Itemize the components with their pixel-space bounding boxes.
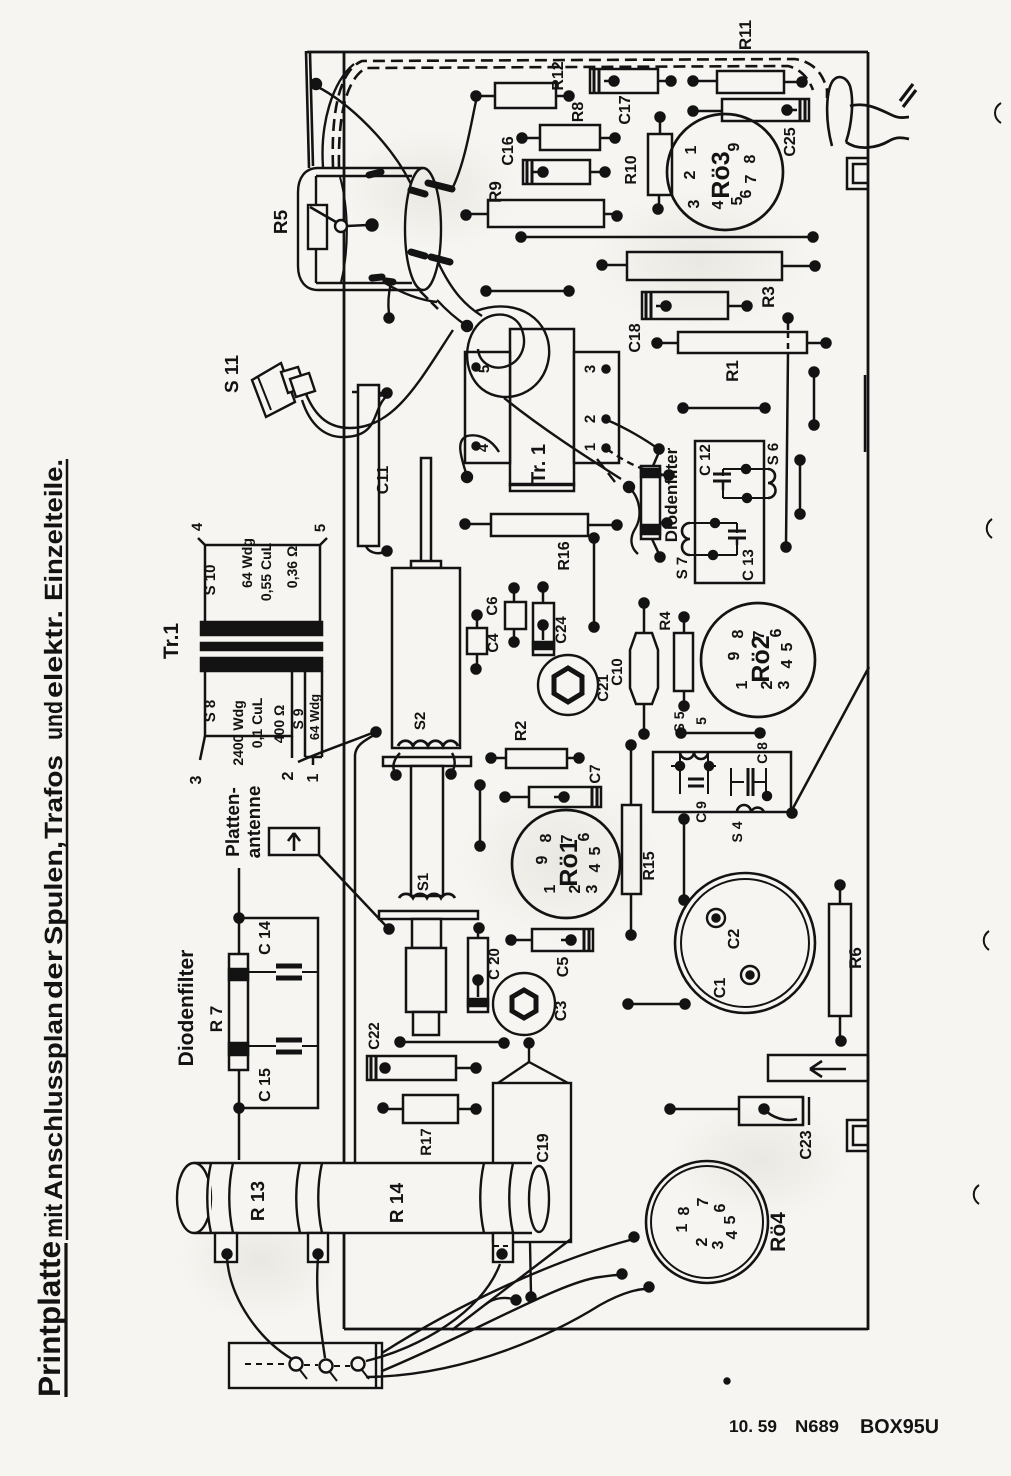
svg-text:S 8: S 8 [202,700,219,723]
svg-text:9: 9 [534,855,551,864]
capacitor C16 [523,160,590,184]
svg-text:2400 Wdg: 2400 Wdg [230,700,246,765]
wire diagonal curl [629,487,640,554]
capacitor C1 C2 electrolytic can [675,873,815,1013]
R5 pot body [308,205,327,249]
coil S6 turns [768,469,776,498]
svg-text:C2: C2 [726,929,743,950]
tube socket Ro4 [646,1161,768,1283]
svg-text:2: 2 [582,415,599,423]
svg-text:3: 3 [776,680,793,689]
svg-text:3: 3 [710,1240,727,1249]
svg-text:S 9: S 9 [290,708,306,729]
coil S4 turns [737,805,764,812]
tube Ro4 pin labels [674,1197,741,1249]
clamp lug 3 [493,1233,513,1262]
svg-text:2: 2 [280,771,297,780]
resistor R17 [403,1095,458,1123]
resistor R12 [495,83,556,108]
svg-text:R11: R11 [736,20,755,50]
capacitor C12 [723,469,768,498]
svg-text:3: 3 [686,199,703,208]
svg-text:0,36 Ω: 0,36 Ω [284,546,300,588]
capacitor C24 [533,603,554,655]
capacitor C23 [739,1097,803,1125]
Tr1 winding bar S8 [201,658,322,671]
svg-text:64 Wdg: 64 Wdg [239,538,255,588]
svg-text:S1: S1 [415,873,432,891]
wire flap curve [323,64,354,167]
wire dashes below can [420,291,438,309]
wire horizontal with dots [400,1041,504,1044]
svg-text:C19: C19 [535,1133,552,1162]
connector pin circles [290,1358,303,1371]
capacitor C15 [248,1045,318,1047]
wire terminal2 to S2 [298,733,372,762]
wire pin2 to diodenfilter [607,420,657,448]
svg-text:C11: C11 [375,466,392,495]
node S6 wire vertical [787,321,790,330]
svg-text:der: der [40,950,68,999]
terminal 2 tick [291,736,294,758]
capacitor C20 [468,938,488,1012]
svg-text:4: 4 [710,200,727,209]
svg-text:R2: R2 [513,721,530,742]
capacitor C13 [690,523,737,555]
svg-text:C 14: C 14 [257,921,274,955]
resistor R10 [648,134,672,195]
wire loop to diagonal [504,398,621,479]
coil S2 lead hooks [393,753,454,772]
wire lug2 to pin2 [317,1258,325,1358]
svg-text:Tr.1: Tr.1 [160,623,183,660]
svg-text:N689: N689 [795,1417,839,1436]
svg-text:C23: C23 [798,1130,815,1159]
wire hook at pin4 [460,435,499,476]
svg-text:6: 6 [738,189,755,198]
svg-text:10. 59: 10. 59 [729,1417,777,1436]
wire C19 bottom [452,1239,571,1330]
wire vertical below box [683,819,686,900]
wire down along board edge [355,735,374,1172]
svg-text:C10: C10 [609,658,626,686]
wire vertical at R16 right [593,540,596,624]
wire short vertical [799,460,802,514]
wire lug1 to pin1 [227,1258,292,1359]
wire lug to mid dot [385,283,437,302]
coil S2 body [392,568,460,748]
svg-text:R 14: R 14 [387,1183,408,1224]
svg-text:9: 9 [726,142,743,151]
tube Ro2 pin labels [726,628,796,689]
Tr1 pin plate right (pins 1,2,3) [574,352,619,463]
terminal 4 tick [198,538,205,545]
wire arrow box to S1 plate [319,855,386,926]
svg-text:und: und [40,701,68,740]
R5 inner frame [316,176,412,283]
coil S1 neck [412,919,441,948]
resistor R2 [506,749,567,768]
Tr1 winding bar S10 [201,622,322,635]
capacitor C19 body [493,1083,571,1242]
potentiometer R5 can [298,168,423,290]
svg-text:C16: C16 [500,136,517,165]
wire from flap to can lug [316,86,411,184]
wire lug down to dot [388,283,391,314]
tube Ro3 pin labels [682,142,760,209]
resistor R6 [829,904,851,1016]
svg-text:S 6: S 6 [765,443,782,466]
svg-text:R 7: R 7 [207,1006,226,1032]
svg-text:4: 4 [475,443,492,452]
coil S1 turns [399,894,455,898]
svg-text:S 7: S 7 [674,557,691,580]
svg-text:5: 5 [693,717,709,725]
paper mottling [340,130,520,250]
svg-text:S 11: S 11 [222,355,243,393]
svg-text:4: 4 [189,522,206,531]
wire lug to top dot [453,101,476,187]
resistor R7 [229,954,248,1070]
svg-text:8: 8 [730,629,747,638]
svg-text:6: 6 [712,1203,729,1212]
resistor R15 [622,805,641,894]
clamp band 1 [207,1163,233,1233]
svg-text:S 4: S 4 [729,821,745,842]
wire dashed inner [339,66,813,167]
capacitor C5 [532,929,593,951]
svg-text:R17: R17 [418,1128,435,1156]
svg-text:elektr.: elektr. [40,610,68,698]
svg-text:BOX95U: BOX95U [860,1416,939,1438]
svg-text:5: 5 [779,642,796,651]
svg-text:Rö3: Rö3 [707,151,735,198]
wire short vertical left of Ro1 [479,785,482,846]
capacitor C9 [680,752,708,794]
svg-text:8: 8 [742,154,759,163]
clamp band 3 [480,1163,513,1233]
capacitor C4 [467,628,487,654]
coil S7 turns [682,523,690,555]
svg-text:C7: C7 [587,764,604,783]
coil S1 block [406,948,446,1012]
svg-text:2: 2 [682,170,699,179]
svg-text:C3: C3 [553,1001,570,1022]
wire exits right [850,105,909,118]
wire exits right lower [846,138,909,148]
svg-text:400 Ω: 400 Ω [271,705,287,743]
svg-text:64 Wdg: 64 Wdg [307,694,322,740]
capacitor C8 [731,768,766,796]
svg-text:C 9: C 9 [693,801,709,823]
wire box to right 2 [382,1275,618,1371]
clamp lug 1 [215,1233,237,1262]
speaker S11 [252,363,295,417]
svg-text:R9: R9 [486,181,505,203]
wire box to right 1 [382,1240,630,1353]
svg-text:1: 1 [683,145,700,154]
svg-text:C 8: C 8 [754,742,770,764]
wire can lower to loop [438,262,482,316]
wire above S4 box [683,732,757,735]
svg-text:4: 4 [724,1230,741,1239]
wire short horizontal [486,290,569,293]
svg-text:8: 8 [676,1206,693,1215]
coil S2 turns [398,741,458,746]
resistor R11 [717,71,784,93]
trimmer C3 [493,973,555,1035]
wire horizontal short [628,1003,685,1006]
capacitor C11 [358,385,379,546]
svg-text:C 20: C 20 [486,948,503,980]
svg-text:Rö1: Rö1 [555,839,583,886]
Tr1 core bar [201,643,322,650]
svg-text:R15: R15 [641,851,658,880]
coil S2 stem [421,458,431,562]
svg-text:0,1 CuL: 0,1 CuL [249,697,265,748]
coil S1 foot [413,1012,439,1035]
dashed board-edge wires along top [333,59,827,167]
scan arc marks right margin [995,103,1001,123]
S9 bracket [305,671,322,757]
svg-text:3: 3 [188,775,205,784]
svg-text:Printplatte: Printplatte [32,1241,67,1397]
svg-text:Trafos: Trafos [40,755,68,839]
svg-text:Spulen,: Spulen, [40,841,68,945]
svg-text:5: 5 [476,365,493,373]
wire lug3 to pin3 [366,1264,500,1361]
capacitor C10 [630,633,658,704]
svg-text:C6: C6 [484,596,501,615]
coil S1 mounting plate [379,911,478,919]
terminal 1 tick [312,757,315,765]
svg-text:C 15: C 15 [257,1068,274,1102]
svg-text:4: 4 [779,659,796,668]
resistor R3 [627,252,782,280]
resistor R4 [674,633,693,691]
svg-text:C5: C5 [555,957,572,978]
resistor R8 [540,125,600,150]
connector box [229,1343,382,1388]
S10 bracket [205,545,320,622]
right edge inner segment [864,375,867,452]
coil S5 turns [680,752,708,759]
svg-text:C25: C25 [782,127,799,156]
terminal 3 tick [200,736,205,760]
wire horizontal mid [683,407,765,410]
wire short vertical right [813,372,816,425]
wire hairpin loop top right [827,77,852,146]
resistor R9 [488,200,604,227]
svg-text:R8: R8 [570,102,587,123]
svg-text:3: 3 [584,884,601,893]
resistor R13 R14 cylinder [194,1163,539,1233]
clamp lug 2 [308,1233,328,1262]
coil S2 mounting plate [383,757,471,766]
approx-equal mark [900,84,916,107]
transformer Tr1 body [510,329,574,485]
wire big loop at Tr1 [467,306,549,397]
trimmer C21 [538,655,598,715]
board outline [307,52,868,1330]
wire dash cross on diagonal [597,459,615,482]
tube Ro1 pin labels [534,832,604,893]
R5 lugs [369,172,452,282]
resistor R16 [491,514,588,536]
svg-text:C17: C17 [617,95,634,124]
S8 bracket [205,671,292,736]
capacitor C19 cone top [498,1062,568,1083]
svg-text:1: 1 [674,1223,691,1232]
svg-text:5: 5 [312,524,329,532]
svg-text:8: 8 [538,833,555,842]
svg-text:C1: C1 [712,978,729,999]
svg-text:R5: R5 [271,209,292,234]
capacitor C14 [248,971,318,973]
svg-text:R12: R12 [550,61,567,90]
R5 can end ellipse [405,168,441,290]
board flap edge top-left [306,51,313,168]
capacitor C7 [529,787,601,807]
capacitor C22 [367,1056,456,1080]
wire pin1 to diodenfilter dashed [607,449,664,475]
title underline small [66,459,69,1240]
svg-text:Diodenfilter: Diodenfilter [662,447,681,542]
svg-text:Anschlussplan: Anschlussplan [40,1002,68,1200]
svg-text:Platten-: Platten- [223,787,244,857]
Diodenfilter component [641,466,660,539]
wire box to right 3 [366,1289,646,1377]
svg-text:5: 5 [587,846,604,855]
arrow box right [768,1055,868,1081]
svg-text:R1: R1 [723,360,742,382]
wire antenna stub [238,868,241,918]
svg-text:Rö4: Rö4 [767,1212,790,1252]
Diodenfilter R7 C14 C15 box [239,918,318,1108]
stray dot below board [725,1379,730,1384]
svg-text:C 13: C 13 [740,549,757,581]
svg-text:1: 1 [582,443,599,451]
svg-text:Diodenfilter: Diodenfilter [175,950,198,1067]
wire end dot [462,321,472,331]
capacitor C17 [590,69,658,93]
svg-text:0,55 CuL: 0,55 CuL [258,542,274,601]
capacitor C18 [642,292,728,319]
right edge notch bottom [847,1120,868,1151]
svg-text:1: 1 [305,773,322,782]
wire long horizontal [521,236,813,239]
tube socket Ro1 [512,810,620,918]
terminal 5 tick [320,538,327,545]
svg-text:C24: C24 [553,616,570,644]
svg-text:C4: C4 [485,633,502,653]
svg-text:R16: R16 [556,541,573,570]
wire diagonal pointer to board edge [792,667,869,810]
svg-text:3: 3 [582,365,599,373]
clamp band 2 [296,1163,322,1233]
right edge notch top [847,158,868,189]
coil S2 top plate [411,561,441,568]
capacitor C25 [722,99,809,121]
svg-text:R4: R4 [657,611,674,631]
svg-text:S 5: S 5 [671,711,687,732]
svg-text:2: 2 [694,1237,711,1246]
capacitor C6 [505,602,526,629]
svg-text:C18: C18 [627,323,644,352]
box S4 S5 C8 C9 [653,752,791,812]
tube socket Ro3 [667,114,783,230]
svg-text:Rö2: Rö2 [747,635,775,682]
svg-text:C22: C22 [366,1022,383,1050]
svg-text:antenne: antenne [244,786,265,859]
svg-text:R 13: R 13 [248,1181,269,1221]
wire speaker leads [302,396,387,437]
svg-text:Einzelteile.: Einzelteile. [40,459,68,601]
resistor R1 [678,332,807,353]
svg-text:5: 5 [722,1215,739,1224]
Tr1 pin plate left (pins 4,5) [465,352,510,463]
svg-text:S 10: S 10 [202,565,219,596]
tube socket Ro2 [701,603,815,717]
svg-text:9: 9 [726,651,743,660]
R5 shaft arc [340,177,347,282]
coil S1 former tube [411,766,443,896]
svg-text:R6: R6 [846,947,865,969]
svg-text:Tr. 1: Tr. 1 [528,444,550,484]
svg-text:R10: R10 [623,155,640,184]
svg-text:R3: R3 [759,286,778,308]
title underline Printplatte [64,1243,67,1397]
Plattenantenne arrow box [269,828,319,855]
svg-text:7: 7 [695,1197,712,1206]
box S6 C12 C13 S7 [695,441,764,583]
svg-text:7: 7 [743,174,760,183]
svg-text:4: 4 [587,863,604,872]
svg-text:mit: mit [40,1203,68,1238]
R5 wiper [335,220,347,232]
svg-text:C 12: C 12 [697,444,714,476]
svg-text:S2: S2 [412,712,429,730]
